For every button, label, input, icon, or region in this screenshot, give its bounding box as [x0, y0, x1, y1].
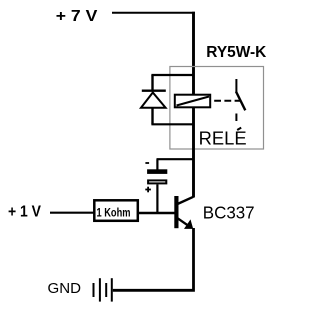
relay enclosure box — [170, 67, 264, 150]
capacitor C1 (polarized) — [147, 159, 167, 213]
diode D1 (flyback) — [141, 75, 166, 124]
svg-text:+ 7 V: + 7 V — [56, 8, 98, 25]
wire capacitor branch — [157, 158, 195, 160]
wire +1V to resistor — [50, 212, 94, 214]
wire emitter down and along ground — [113, 228, 194, 290]
battery / ground symbol — [94, 278, 112, 301]
relay coil K1 — [175, 95, 210, 108]
wire vertical from top corner to relay coil top pin — [192, 12, 195, 95]
wire diode bottom branch — [151, 123, 194, 125]
svg-text:+ 1 V: + 1 V — [8, 203, 42, 220]
svg-text:BC337: BC337 — [203, 202, 255, 222]
label C1 minus — [145, 162, 149, 164]
relay switch contact — [236, 79, 245, 121]
dashed link coil to contact — [214, 100, 241, 102]
transistor Q1 BC337 — [174, 196, 193, 229]
wire relay coil bottom to transistor collector — [192, 107, 195, 198]
label C1 plus — [145, 187, 151, 193]
svg-text:GND: GND — [48, 281, 82, 297]
label RELE — [199, 128, 247, 149]
resistor R1 box — [94, 200, 138, 221]
svg-text:RY5W-K: RY5W-K — [206, 44, 267, 61]
svg-text:RELE: RELE — [199, 129, 247, 149]
wire top horizontal from +7V — [112, 12, 195, 14]
wire resistor to base — [138, 212, 175, 215]
svg-text:1 Kohm: 1 Kohm — [97, 208, 131, 220]
wire diode top branch — [151, 74, 194, 76]
